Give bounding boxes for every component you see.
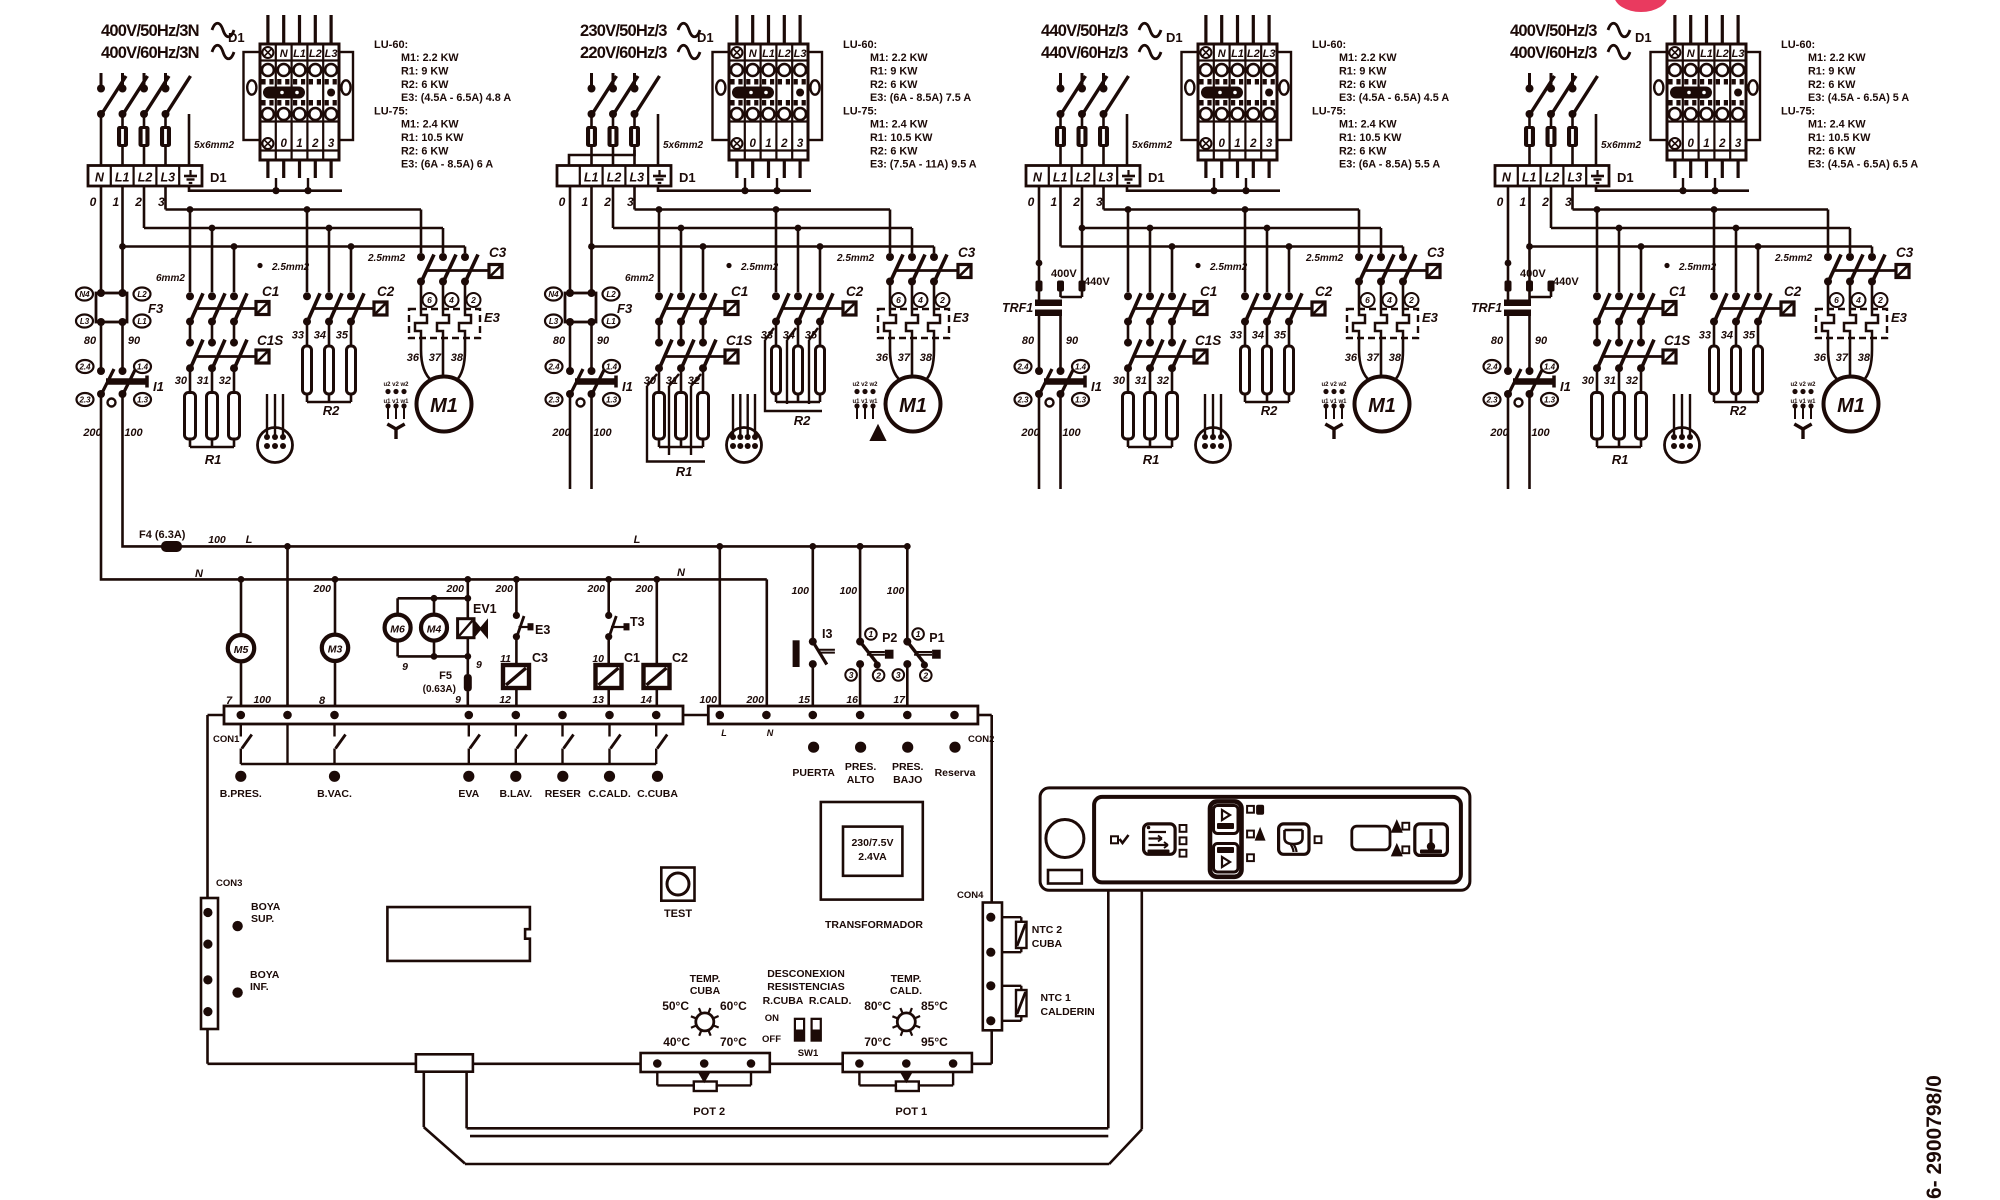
overload relay E3 — [1347, 282, 1439, 339]
svg-text:32: 32 — [1157, 375, 1169, 387]
svg-text:3: 3 — [1096, 195, 1103, 209]
svg-text:L2: L2 — [137, 290, 147, 299]
svg-text:30: 30 — [175, 375, 188, 387]
svg-text:5x6mm2: 5x6mm2 — [1601, 140, 1641, 151]
svg-text:1.3: 1.3 — [1544, 395, 1556, 404]
svg-text:440V: 440V — [1084, 276, 1110, 288]
svg-text:100: 100 — [1062, 427, 1081, 439]
contactor C1 — [1593, 284, 1686, 326]
svg-text:R1: 9 KW: R1: 9 KW — [401, 65, 449, 77]
check icon — [1111, 836, 1118, 843]
svg-text:9: 9 — [402, 661, 408, 673]
svg-text:EVA: EVA — [458, 788, 479, 800]
svg-text:M1: M1 — [430, 395, 458, 417]
svg-text:36: 36 — [876, 352, 889, 364]
svg-text:N: N — [1687, 48, 1696, 60]
coil C2 branch — [634, 579, 688, 706]
line fuse — [1081, 117, 1084, 126]
svg-text:M4: M4 — [427, 623, 442, 635]
svg-text:C.CALD.: C.CALD. — [588, 788, 631, 800]
svg-text:E3: E3 — [1891, 310, 1908, 325]
svg-text:u1 v1 w1: u1 v1 w1 — [852, 399, 878, 405]
thermometer button — [1415, 824, 1448, 856]
svg-text:PRES.: PRES. — [845, 761, 877, 773]
svg-text:D1: D1 — [228, 30, 245, 45]
svg-text:NTC 2: NTC 2 — [1032, 924, 1062, 936]
PCB output terminals — [220, 771, 679, 800]
svg-text:37: 37 — [1367, 352, 1380, 364]
svg-text:2: 2 — [1541, 195, 1549, 209]
svg-text:0: 0 — [1218, 138, 1225, 150]
svg-text:M5: M5 — [234, 644, 249, 656]
ribbon cable connector on PCB — [416, 1054, 473, 1071]
svg-text:N: N — [1502, 171, 1512, 185]
svg-text:2: 2 — [134, 195, 142, 209]
switch I1 — [546, 360, 633, 439]
transformer TRF1 — [1471, 186, 1579, 371]
svg-text:PRES.: PRES. — [892, 761, 924, 773]
svg-text:34: 34 — [1721, 330, 1733, 342]
svg-text:31: 31 — [197, 375, 209, 387]
svg-text:1.4: 1.4 — [137, 362, 149, 371]
drop wires to C1/C2 — [1128, 210, 1289, 293]
svg-text:1: 1 — [869, 629, 874, 639]
motor winding terminals — [1321, 382, 1347, 419]
svg-text:PUERTA: PUERTA — [792, 767, 835, 779]
svg-text:400V/60Hz/3N: 400V/60Hz/3N — [101, 44, 199, 62]
svg-text:C2: C2 — [846, 284, 864, 299]
svg-text:5x6mm2: 5x6mm2 — [194, 140, 234, 151]
svg-text:M1: 2.4 KW: M1: 2.4 KW — [1808, 119, 1866, 131]
svg-text:CALD.: CALD. — [890, 985, 922, 997]
contactor C2 — [1710, 284, 1802, 326]
terminal block D1 (physical) col x=0 — [244, 15, 354, 178]
svg-text:2: 2 — [311, 138, 319, 150]
pushbutton P2 — [840, 543, 898, 706]
svg-text:33: 33 — [1230, 330, 1242, 342]
svg-text:DESCONEXION: DESCONEXION — [767, 968, 845, 980]
svg-text:L2: L2 — [1545, 171, 1560, 185]
svg-text:400V/50Hz/3: 400V/50Hz/3 — [1510, 22, 1597, 40]
svg-text:L2: L2 — [1716, 48, 1729, 60]
thermistor NTC 1 — [1002, 986, 1095, 1021]
svg-text:C3: C3 — [1427, 245, 1445, 260]
svg-text:F5: F5 — [439, 670, 452, 682]
svg-text:B.PRES.: B.PRES. — [220, 788, 262, 800]
svg-text:L1: L1 — [293, 48, 306, 60]
svg-text:35: 35 — [1743, 330, 1756, 342]
svg-text:D1: D1 — [679, 170, 696, 185]
svg-text:35: 35 — [336, 330, 349, 342]
svg-text:C1: C1 — [731, 284, 748, 299]
svg-text:100: 100 — [593, 427, 612, 439]
svg-text:RESISTENCIAS: RESISTENCIAS — [767, 981, 845, 993]
svg-text:u2 v2 w2: u2 v2 w2 — [383, 382, 409, 388]
svg-text:1.3: 1.3 — [606, 395, 618, 404]
svg-text:C1S: C1S — [1664, 333, 1690, 348]
round motor connector — [1196, 394, 1231, 463]
svg-text:R1: 9 KW: R1: 9 KW — [1808, 65, 1856, 77]
connector CON4 — [957, 890, 1002, 1030]
svg-text:13: 13 — [592, 694, 604, 706]
svg-text:90: 90 — [597, 335, 610, 347]
svg-text:200: 200 — [634, 583, 653, 595]
svg-text:u1 v1 w1: u1 v1 w1 — [383, 399, 409, 405]
wire stubs below I1 — [1038, 394, 1041, 489]
control display panel — [1040, 788, 1470, 890]
svg-text:50°C: 50°C — [662, 999, 689, 1013]
overload relay E3 — [409, 282, 501, 339]
svg-text:1: 1 — [916, 629, 921, 639]
wire gauge labels — [726, 263, 731, 268]
svg-text:N: N — [195, 568, 204, 580]
svg-text:L: L — [634, 534, 641, 546]
bus wire L3 phase — [1104, 186, 1360, 253]
svg-text:38: 38 — [1389, 352, 1402, 364]
svg-text:36: 36 — [1345, 352, 1358, 364]
svg-text:230/7.5V: 230/7.5V — [851, 837, 893, 849]
svg-text:F3: F3 — [148, 301, 164, 316]
resistor bank R1 — [185, 368, 240, 467]
svg-text:R1: 10.5 KW: R1: 10.5 KW — [401, 132, 464, 144]
svg-text:38: 38 — [1858, 352, 1871, 364]
svg-text:1: 1 — [581, 195, 588, 209]
svg-text:C2: C2 — [1784, 284, 1802, 299]
svg-text:16: 16 — [846, 694, 858, 706]
svg-text:OFF: OFF — [762, 1034, 781, 1045]
svg-text:80: 80 — [1491, 335, 1504, 347]
wire 0 to F3 — [100, 186, 103, 293]
resistor bank R2 — [1241, 322, 1294, 418]
svg-text:60°C: 60°C — [720, 999, 747, 1013]
svg-text:2.5mm2: 2.5mm2 — [1678, 262, 1717, 273]
svg-text:2: 2 — [1408, 295, 1414, 305]
svg-text:E3: (4.5A - 6.5A) 5 A: E3: (4.5A - 6.5A) 5 A — [1808, 92, 1909, 104]
svg-text:100: 100 — [840, 585, 858, 597]
svg-text:3: 3 — [1565, 195, 1572, 209]
svg-text:1: 1 — [296, 138, 302, 150]
svg-text:P1: P1 — [929, 631, 944, 645]
svg-text:33: 33 — [1699, 330, 1711, 342]
svg-text:0: 0 — [1497, 195, 1504, 209]
ratings text LU-60 / LU-75 — [843, 39, 977, 171]
temperature dial TEMP CUBA — [662, 973, 747, 1049]
svg-text:I1: I1 — [1560, 379, 1571, 394]
svg-text:C2: C2 — [672, 651, 688, 665]
svg-text:TRF1: TRF1 — [1471, 301, 1502, 315]
svg-text:R1: 9 KW: R1: 9 KW — [1339, 65, 1387, 77]
svg-text:SW1: SW1 — [798, 1048, 819, 1059]
contactor C1S — [1593, 322, 1690, 373]
svg-text:L3: L3 — [549, 317, 559, 326]
panel small window — [1048, 870, 1082, 884]
float switch BOYA INF — [232, 969, 279, 998]
svg-text:N: N — [1033, 171, 1043, 185]
contactor C1S — [1124, 322, 1221, 373]
svg-text:u2 v2 w2: u2 v2 w2 — [1790, 382, 1816, 388]
svg-text:L1: L1 — [1522, 171, 1537, 185]
svg-text:2.4: 2.4 — [1016, 362, 1029, 371]
svg-text:2.4: 2.4 — [547, 362, 560, 371]
svg-text:Reserva: Reserva — [935, 767, 976, 779]
svg-text:32: 32 — [1626, 375, 1638, 387]
svg-text:30: 30 — [1582, 375, 1595, 387]
main switch D1 poles — [588, 73, 660, 118]
main switch D1 poles — [97, 73, 191, 118]
svg-text:2: 2 — [922, 671, 928, 681]
line fuse — [1528, 117, 1531, 126]
wire L from I1 to control section — [123, 394, 908, 546]
round motor connector — [1665, 394, 1700, 463]
svg-text:32: 32 — [219, 375, 231, 387]
svg-text:6: 6 — [1834, 295, 1839, 305]
svg-text:31: 31 — [1604, 375, 1616, 387]
fan symbol — [387, 424, 404, 439]
line fuse — [164, 117, 167, 126]
svg-text:6mm2: 6mm2 — [156, 273, 185, 284]
earth conductor — [1126, 114, 1129, 166]
contactor C3 — [1355, 245, 1445, 286]
svg-text:R2: 6 KW: R2: 6 KW — [870, 145, 918, 157]
svg-text:u1 v1 w1: u1 v1 w1 — [1321, 399, 1347, 405]
svg-text:TEMP.: TEMP. — [690, 973, 721, 985]
svg-text:N: N — [95, 171, 105, 185]
svg-text:200: 200 — [1020, 427, 1040, 439]
svg-text:1: 1 — [1234, 138, 1240, 150]
svg-text:L2: L2 — [309, 48, 322, 60]
svg-text:LU-75:: LU-75: — [1312, 106, 1346, 118]
salt rinse indicators — [1392, 822, 1409, 856]
wire gauge labels — [1195, 263, 1200, 268]
svg-text:F3: F3 — [617, 301, 633, 316]
temperature dial TEMP CALD — [864, 973, 948, 1049]
svg-text:C3: C3 — [532, 651, 548, 665]
earth conductor — [188, 114, 191, 166]
motor M5 (pump) — [226, 579, 254, 707]
svg-text:u2 v2 w2: u2 v2 w2 — [852, 382, 878, 388]
drop wires to C1/C2 — [659, 210, 820, 293]
svg-text:2.5mm2: 2.5mm2 — [1305, 253, 1344, 264]
bus wire L2 phase — [144, 186, 443, 253]
resistor bank R1 — [1123, 368, 1178, 467]
start buttons block — [1210, 801, 1242, 876]
contactor C1 — [1124, 284, 1217, 326]
svg-text:L3: L3 — [1263, 48, 1276, 60]
svg-text:80: 80 — [553, 335, 566, 347]
svg-text:C3: C3 — [1896, 245, 1914, 260]
connector CON1 — [213, 706, 683, 745]
wire gauge labels — [257, 263, 262, 268]
bus wire L3 phase — [166, 186, 422, 253]
ribbon cable to display panel — [424, 890, 1142, 1164]
svg-text:N: N — [767, 728, 774, 738]
motor M3 (wash pump) — [312, 579, 348, 707]
CON2 external terminals — [792, 742, 975, 786]
line fuse — [1059, 117, 1062, 126]
pushbutton P1 — [887, 543, 945, 706]
svg-text:C2: C2 — [377, 284, 395, 299]
svg-text:0: 0 — [90, 195, 97, 209]
svg-text:C1: C1 — [1669, 284, 1686, 299]
solenoid valve EV1 — [458, 602, 497, 638]
svg-text:6: 6 — [1365, 295, 1370, 305]
svg-text:31: 31 — [1135, 375, 1147, 387]
svg-text:70°C: 70°C — [864, 1035, 891, 1049]
svg-text:L3: L3 — [1732, 48, 1745, 60]
svg-text:2.5mm2: 2.5mm2 — [271, 262, 310, 273]
svg-text:TEST: TEST — [664, 908, 692, 920]
svg-text:R2: 6 KW: R2: 6 KW — [1808, 79, 1856, 91]
IC chip — [387, 907, 530, 961]
svg-text:C1: C1 — [262, 284, 279, 299]
svg-text:L2: L2 — [1076, 171, 1091, 185]
line fuse — [612, 117, 615, 126]
svg-text:C2: C2 — [1315, 284, 1333, 299]
svg-text:u2 v2 w2: u2 v2 w2 — [1321, 382, 1347, 388]
svg-text:E3: (7.5A - 11A) 9.5 A: E3: (7.5A - 11A) 9.5 A — [870, 159, 977, 171]
svg-text:LU-75:: LU-75: — [374, 106, 408, 118]
svg-text:EV1: EV1 — [473, 602, 497, 616]
svg-text:100: 100 — [699, 694, 717, 706]
svg-text:L3: L3 — [794, 48, 807, 60]
svg-text:200: 200 — [551, 427, 571, 439]
earth wire to D1 block — [1127, 186, 1280, 191]
svg-text:M1: 2.4 KW: M1: 2.4 KW — [401, 119, 459, 131]
svg-text:85°C: 85°C — [921, 999, 948, 1013]
svg-text:38: 38 — [451, 352, 464, 364]
svg-text:440V: 440V — [1553, 276, 1579, 288]
svg-text:440V/50Hz/3: 440V/50Hz/3 — [1041, 22, 1128, 40]
svg-text:CON1: CON1 — [213, 734, 240, 745]
svg-text:R1: R1 — [205, 452, 222, 467]
contactor C1 — [655, 284, 748, 326]
thermostat T3 and coil C1 branch — [586, 579, 644, 706]
svg-text:BOYA: BOYA — [251, 901, 281, 913]
contactor C2 — [1241, 284, 1333, 326]
svg-text:F4 (6.3A): F4 (6.3A) — [139, 529, 186, 541]
svg-text:4: 4 — [917, 295, 923, 305]
svg-text:2.5mm2: 2.5mm2 — [740, 262, 779, 273]
drop wires to C1/C2 — [1597, 210, 1758, 293]
svg-text:2: 2 — [939, 295, 945, 305]
svg-text:95°C: 95°C — [921, 1035, 948, 1049]
svg-text:E3: E3 — [484, 310, 501, 325]
svg-text:100: 100 — [791, 585, 809, 597]
svg-text:C1: C1 — [624, 651, 640, 665]
svg-text:2.3: 2.3 — [1016, 395, 1029, 404]
svg-text:2: 2 — [1072, 195, 1080, 209]
svg-text:C1S: C1S — [726, 333, 752, 348]
svg-text:70°C: 70°C — [720, 1035, 747, 1049]
svg-text:3: 3 — [896, 670, 901, 680]
relay contacts below CON1 — [241, 724, 667, 764]
svg-text:LU-75:: LU-75: — [843, 106, 877, 118]
svg-text:200: 200 — [494, 583, 513, 595]
svg-text:2: 2 — [875, 671, 881, 681]
svg-text:3: 3 — [797, 138, 804, 150]
svg-text:D1: D1 — [1617, 170, 1634, 185]
svg-text:D1: D1 — [697, 30, 714, 45]
line fuse — [143, 117, 146, 126]
DIP switch SW1 block — [762, 968, 852, 1059]
bus wire L1 phase — [1530, 186, 1873, 253]
switch I1 — [1015, 360, 1102, 439]
motor M6 — [385, 598, 411, 656]
svg-text:LU-60:: LU-60: — [843, 39, 877, 51]
svg-text:E3: (6A - 8.5A) 5.5 A: E3: (6A - 8.5A) 5.5 A — [1339, 159, 1440, 171]
TEST button — [661, 868, 694, 921]
svg-text:M1: 2.2 KW: M1: 2.2 KW — [401, 52, 459, 64]
svg-text:R2: 6 KW: R2: 6 KW — [870, 79, 918, 91]
svg-text:440V/60Hz/3: 440V/60Hz/3 — [1041, 44, 1128, 62]
program list icon — [1144, 824, 1176, 854]
fan symbol — [1325, 424, 1342, 439]
bus wire L3 phase — [635, 186, 891, 253]
earth wire to D1 block — [189, 186, 342, 191]
svg-text:0: 0 — [749, 138, 756, 150]
svg-text:BAJO: BAJO — [893, 774, 922, 786]
svg-text:R1: 9 KW: R1: 9 KW — [870, 65, 918, 77]
junction bracket under M6 M4 — [398, 653, 472, 673]
svg-text:400V/60Hz/3: 400V/60Hz/3 — [1510, 44, 1597, 62]
bus wire L1 phase — [123, 186, 466, 253]
svg-text:E3: E3 — [1422, 310, 1439, 325]
switch I3 — [791, 546, 834, 706]
line fuse — [590, 117, 593, 126]
contactor C1S — [186, 322, 283, 373]
bus wire L1 phase — [592, 186, 935, 253]
svg-text:L1: L1 — [1231, 48, 1244, 60]
svg-text:90: 90 — [1535, 335, 1548, 347]
svg-text:3: 3 — [328, 138, 335, 150]
svg-text:E3: (6A - 8.5A) 7.5 A: E3: (6A - 8.5A) 7.5 A — [870, 92, 971, 104]
PCB board outline — [208, 715, 992, 1064]
svg-text:C3: C3 — [489, 245, 507, 260]
contactor C3 — [886, 245, 976, 286]
svg-text:ON: ON — [765, 1013, 779, 1024]
svg-text:33: 33 — [292, 330, 304, 342]
potentiometer POT 1 — [843, 1053, 972, 1118]
svg-text:E3: E3 — [535, 623, 550, 637]
svg-text:L3: L3 — [80, 317, 90, 326]
svg-text:3: 3 — [627, 195, 634, 209]
svg-text:2: 2 — [1877, 295, 1883, 305]
svg-text:L3: L3 — [161, 171, 176, 185]
svg-text:CON3: CON3 — [216, 878, 242, 889]
svg-text:100: 100 — [1531, 427, 1550, 439]
terminal block D1 (physical) col x=1407 — [1651, 15, 1761, 178]
line fuse — [1550, 117, 1553, 126]
transformer 230/7.5V — [821, 802, 924, 931]
svg-text:12: 12 — [499, 694, 511, 706]
svg-text:90: 90 — [1066, 335, 1079, 347]
svg-text:2.4: 2.4 — [1485, 362, 1498, 371]
svg-text:1.4: 1.4 — [1544, 362, 1556, 371]
svg-text:4: 4 — [448, 295, 454, 305]
svg-text:37: 37 — [429, 352, 442, 364]
svg-text:R2: R2 — [794, 413, 811, 428]
svg-text:3: 3 — [1735, 138, 1742, 150]
svg-text:1: 1 — [112, 195, 119, 209]
svg-text:34: 34 — [314, 330, 326, 342]
program indicators — [1247, 805, 1264, 861]
wire L to CON2 — [718, 546, 721, 706]
svg-text:2.5mm2: 2.5mm2 — [1209, 262, 1248, 273]
svg-text:E3: (4.5A - 6.5A) 4.5 A: E3: (4.5A - 6.5A) 4.5 A — [1339, 92, 1449, 104]
svg-text:E3: (4.5A - 6.5A) 6.5 A: E3: (4.5A - 6.5A) 6.5 A — [1808, 159, 1918, 171]
svg-text:L1: L1 — [137, 317, 147, 326]
resistor bank R2 — [765, 322, 825, 428]
